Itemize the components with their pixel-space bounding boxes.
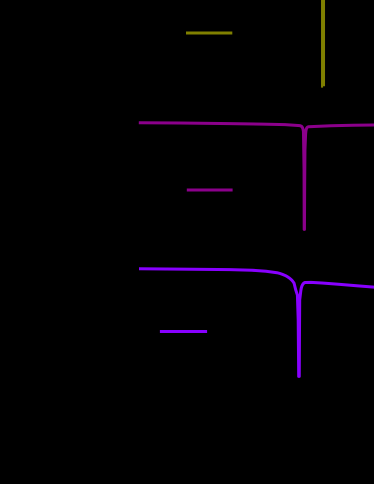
magenta curve (notch response, middle subplot) xyxy=(139,123,374,230)
violet curve (notch response, bottom subplot) xyxy=(139,269,374,377)
olive curve down-leg of notch spike (top subplot) xyxy=(321,0,323,88)
violet legend swatch xyxy=(160,330,207,333)
magenta legend swatch xyxy=(187,189,233,192)
olive curve up-leg of notch spike xyxy=(323,0,325,86)
olive legend swatch xyxy=(186,32,232,35)
